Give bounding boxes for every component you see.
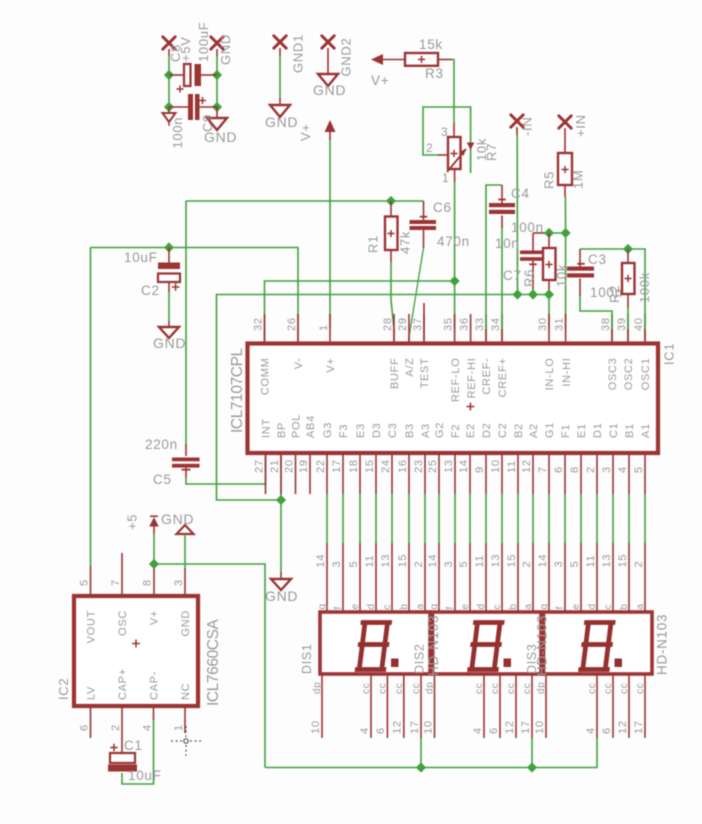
- svg-text:3: 3: [601, 466, 613, 473]
- svg-text:CREF-: CREF-: [481, 358, 493, 395]
- svg-text:220n: 220n: [145, 437, 178, 452]
- svg-text:100uF: 100uF: [196, 22, 211, 62]
- svg-text:e: e: [350, 603, 361, 609]
- DIS2 dp pin 10: [434, 674, 436, 738]
- pin GND2 X-pin: [322, 36, 334, 48]
- wire DIS1 cc to bus: [420, 738, 422, 768]
- svg-text:cc: cc: [411, 683, 422, 694]
- junction R2 top: [623, 244, 633, 254]
- resistor R6 10k: [548, 233, 550, 248]
- svg-text:R6: R6: [522, 269, 537, 287]
- IC IC1 ICL7107CPL box: [248, 344, 659, 454]
- wire R7 pin2 loop to wiper wire: [438, 154, 448, 156]
- pin GND supply X-pin: [211, 37, 223, 49]
- IC1 bottom pin 10 C2: [501, 455, 503, 494]
- wire IC1 pin 9 D2 to DIS2 segment: [485, 494, 487, 543]
- svg-text:IC1: IC1: [662, 343, 677, 365]
- svg-text:10: 10: [490, 459, 502, 473]
- svg-text:REF-HI: REF-HI: [466, 358, 478, 399]
- IC1 top pin 28 BUFF: [393, 314, 395, 344]
- display DIS2 decimal point: [504, 659, 512, 668]
- wire GND1: [279, 48, 281, 56]
- svg-text:VOUT: VOUT: [86, 610, 98, 643]
- IC1 bottom pin 5 A1: [644, 455, 646, 494]
- svg-text:24: 24: [380, 459, 392, 473]
- svg-text:OSC: OSC: [117, 610, 129, 636]
- IC1 top pin 35 REF-LO: [454, 314, 456, 344]
- svg-text:15: 15: [617, 554, 629, 568]
- wire IC1 pin 8 E1 to DIS3 segment: [580, 494, 582, 543]
- svg-text:a: a: [635, 603, 646, 609]
- svg-text:DIS1: DIS1: [300, 643, 314, 674]
- svg-text:d: d: [476, 603, 487, 609]
- wire IC1 pin 25 G2 to DIS2 segment: [438, 494, 440, 543]
- DIS3 dp pin 10: [545, 674, 547, 738]
- wire IC1 pin 22 G3 to DIS1 segment: [326, 494, 328, 543]
- svg-text:2: 2: [585, 466, 597, 473]
- wiper connection arrowhead: [467, 143, 475, 151]
- wire IC1 pin 17 F3 to DIS1 segment: [342, 494, 344, 543]
- wire IC1 pin 6 F1 to DIS3 segment: [564, 494, 566, 543]
- svg-text:g: g: [317, 603, 328, 609]
- junction INT node R1: [386, 196, 396, 206]
- display DIS1 HD-N103 box: [320, 612, 430, 674]
- IC1 top pin 30 IN-LO: [548, 314, 550, 344]
- svg-text:C1: C1: [124, 738, 143, 753]
- wire node A to IN-HI pin 31: [565, 233, 567, 329]
- svg-text:B2: B2: [513, 423, 525, 438]
- supply symbol +5 arrow: [149, 517, 159, 527]
- svg-text:DIS2: DIS2: [413, 643, 427, 674]
- svg-text:100n: 100n: [511, 220, 544, 235]
- supply symbol V+ arrow left: [371, 54, 383, 65]
- svg-text:15: 15: [397, 554, 409, 568]
- IC1 bottom pin 20 POL: [295, 455, 297, 494]
- pin -IN X-pin: [511, 115, 523, 127]
- svg-text:C4: C4: [511, 186, 530, 201]
- IC1 top pin 31 IN-HI: [565, 314, 567, 344]
- IC1 bottom pin 13 F2: [454, 455, 456, 494]
- svg-text:14: 14: [537, 554, 549, 568]
- wire IC1 pin 14 E2 to DIS2 segment: [469, 494, 471, 543]
- svg-text:dp: dp: [312, 681, 323, 694]
- display DIS3 HD-N103 box: [544, 612, 653, 674]
- svg-text:38: 38: [600, 317, 612, 331]
- svg-text:2: 2: [413, 561, 425, 568]
- IC1 bottom pin 15 D3: [375, 455, 377, 494]
- wire IC1 pin 3 C1 to DIS3 segment: [612, 494, 614, 543]
- svg-text:GND: GND: [218, 34, 233, 65]
- svg-text:5: 5: [78, 579, 90, 586]
- trimmer R7 10k body: [448, 137, 461, 169]
- svg-text:10uF: 10uF: [128, 768, 162, 783]
- pin +5V supply X-pin: [163, 37, 175, 49]
- IC1 bottom pin 24 C3: [391, 455, 393, 494]
- IC1 bottom pin 27 INT: [265, 455, 267, 494]
- svg-text:LV: LV: [86, 686, 98, 700]
- svg-text:B1: B1: [624, 423, 636, 438]
- svg-text:V-: V-: [293, 358, 305, 370]
- svg-text:INT: INT: [261, 418, 273, 438]
- capacitor C2 10uF: [168, 248, 170, 264]
- IC IC2 ICL7660CSA box: [74, 596, 198, 706]
- capacitor C4 100n: [486, 185, 502, 329]
- svg-text:OSC2: OSC2: [623, 358, 635, 391]
- svg-text:8: 8: [569, 466, 581, 473]
- svg-text:36: 36: [458, 317, 470, 331]
- IC1 top pin 36 REF-HI: [470, 314, 472, 344]
- junction BP R6 IN-LO: [544, 289, 554, 299]
- svg-text:11: 11: [364, 555, 376, 568]
- IC1 bottom pin 3 C1: [612, 455, 614, 494]
- wire IC1 pin 11 B2 to DIS2 segment: [517, 494, 519, 543]
- svg-text:GND2: GND2: [339, 38, 354, 77]
- wire C5 bottom to INT pin 27: [186, 470, 266, 484]
- IC1 bottom pin 2 D1: [596, 455, 598, 494]
- IC1 top pin 26 V-: [297, 314, 299, 344]
- svg-text:+IN: +IN: [573, 114, 588, 137]
- svg-text:GND: GND: [265, 114, 298, 130]
- svg-text:3: 3: [553, 561, 565, 568]
- wire IC1 pin 13 F2 to DIS2 segment: [454, 494, 456, 543]
- IC1 bottom pin 23 A3: [424, 455, 426, 494]
- svg-text:f: f: [333, 606, 344, 609]
- svg-text:e: e: [460, 603, 471, 609]
- svg-text:C3: C3: [387, 423, 399, 438]
- wire V+ bus to display commons: [154, 564, 265, 768]
- svg-text:6: 6: [601, 727, 613, 734]
- svg-text:23: 23: [413, 459, 425, 473]
- svg-text:39: 39: [616, 317, 628, 331]
- IC1 top pin 39 OSC2: [627, 314, 629, 344]
- capacitor C1 10uF: [110, 753, 135, 763]
- svg-text:cc: cc: [377, 683, 388, 694]
- svg-text:-IN: -IN: [520, 117, 535, 136]
- pin +IN X-pin: [559, 116, 571, 128]
- wire R3 to R7 pin 3: [438, 59, 452, 61]
- svg-text:cc: cc: [635, 683, 646, 694]
- IC2 pin 8 red stub: [153, 568, 155, 595]
- svg-text:17: 17: [409, 720, 421, 734]
- wire V- net y=247.5: [91, 248, 299, 330]
- svg-text:CAP+: CAP+: [117, 668, 129, 700]
- junction BP pin21 GND drop: [276, 495, 286, 505]
- svg-text:cc: cc: [394, 683, 405, 694]
- svg-text:12: 12: [504, 720, 516, 734]
- IC2 pin 4 wire to C1 bottom: [153, 707, 155, 720]
- svg-text:cc: cc: [603, 683, 614, 694]
- IC1 bottom pin 12 A2: [532, 455, 534, 494]
- junction bus DIS2: [527, 762, 537, 772]
- wire R7 pin1 to REF-LO: [454, 169, 456, 182]
- svg-text:b: b: [619, 603, 630, 609]
- svg-text:dp: dp: [536, 681, 547, 694]
- svg-text:34: 34: [490, 317, 502, 331]
- svg-text:G1: G1: [544, 422, 556, 438]
- svg-text:6: 6: [375, 727, 387, 734]
- wire V- to IC2 VOUT: [90, 248, 92, 567]
- wire IC1 pin 10 C2 to DIS2 segment: [501, 494, 503, 543]
- svg-text:REF-LO: REF-LO: [450, 358, 462, 403]
- mouse cursor crosshair: [171, 726, 201, 756]
- svg-text:14: 14: [458, 459, 470, 473]
- DIS3 cc pin 6: [612, 674, 614, 738]
- svg-text:15k: 15k: [419, 37, 443, 52]
- DIS2 cc pin 12: [515, 674, 517, 738]
- svg-text:4: 4: [141, 724, 153, 731]
- IC1 bottom pin 9 D2: [485, 455, 487, 494]
- IC1 bottom pin 21 BP: [280, 455, 282, 494]
- pin TEST stub: [423, 303, 425, 344]
- IC1 bottom pin 11 B2: [517, 455, 519, 494]
- svg-text:100n: 100n: [170, 117, 185, 149]
- junction REF-LO COMM: [450, 276, 460, 286]
- IC1 bottom pin 22 G3: [326, 455, 328, 494]
- IC1 bottom pin 19 AB4: [309, 455, 311, 494]
- svg-text:47k: 47k: [398, 231, 413, 254]
- svg-text:2: 2: [633, 561, 645, 568]
- svg-text:17: 17: [633, 720, 645, 734]
- svg-text:V+: V+: [298, 123, 313, 141]
- DIS3 cc pin 4: [596, 674, 598, 738]
- IC1 top pin 29 A/Z: [408, 314, 410, 344]
- svg-text:ICL7107CPL: ICL7107CPL: [229, 347, 246, 433]
- svg-text:13: 13: [601, 554, 613, 568]
- svg-text:d: d: [366, 603, 377, 609]
- IC2 pin 2 wire to C1: [121, 707, 123, 753]
- svg-text:D1: D1: [592, 423, 604, 438]
- svg-text:27: 27: [253, 459, 265, 473]
- svg-text:CREF+: CREF+: [497, 358, 509, 398]
- junction GND C8: [212, 70, 222, 80]
- svg-text:14: 14: [315, 554, 327, 568]
- svg-text:cc: cc: [474, 683, 485, 694]
- svg-text:32: 32: [252, 317, 264, 331]
- svg-text:C3: C3: [588, 252, 607, 267]
- svg-text:13: 13: [443, 459, 455, 473]
- wire pin 21 stub: [280, 455, 282, 468]
- svg-text:21: 21: [269, 459, 281, 473]
- capacitor C8 100uF: [169, 74, 184, 76]
- svg-text:OSC3: OSC3: [607, 358, 619, 391]
- junction node A R5: [561, 228, 571, 238]
- DIS2 cc pin 4: [483, 674, 485, 738]
- svg-text:28: 28: [382, 317, 394, 331]
- junction +5 V+ bus: [149, 559, 159, 569]
- wire IC1 pin 7 G1 to DIS3 segment: [548, 494, 550, 543]
- junction BP -IN: [512, 289, 522, 299]
- svg-text:1: 1: [173, 724, 185, 731]
- svg-text:OSC1: OSC1: [640, 358, 652, 391]
- svg-text:1M: 1M: [571, 170, 586, 189]
- wire V+ to R3: [382, 59, 405, 61]
- junction bus DIS1: [416, 762, 426, 772]
- wire GND2: [327, 48, 329, 74]
- capacitor C3 100n: [579, 249, 581, 267]
- svg-text:COMM: COMM: [260, 358, 272, 396]
- svg-text:C7: C7: [503, 268, 522, 283]
- svg-text:IC2: IC2: [56, 678, 71, 700]
- wire display common cathode bus: [265, 738, 597, 768]
- wire OSC1 node y=249: [580, 249, 645, 329]
- svg-text:cc: cc: [587, 683, 598, 694]
- svg-text:33: 33: [474, 317, 486, 331]
- svg-text:cc: cc: [619, 683, 630, 694]
- IC1 bottom pin 25 G2: [438, 455, 440, 494]
- svg-text:5: 5: [348, 561, 360, 568]
- svg-text:HD-N103: HD-N103: [535, 615, 550, 676]
- IC1 bottom pin 6 F1: [564, 455, 566, 494]
- svg-text:A/Z: A/Z: [404, 358, 416, 377]
- svg-text:V+: V+: [325, 358, 337, 373]
- svg-text:F2: F2: [450, 424, 462, 438]
- IC2 origin cross: [132, 640, 140, 648]
- svg-text:IN-LO: IN-LO: [544, 358, 556, 391]
- wire INT node horizontal y=201: [186, 200, 424, 202]
- IC1 bottom pin 4 B1: [628, 455, 630, 494]
- svg-text:BP: BP: [276, 422, 288, 438]
- svg-text:D3: D3: [371, 423, 383, 438]
- svg-text:19: 19: [298, 459, 310, 473]
- svg-text:F3: F3: [338, 424, 350, 438]
- svg-text:GND: GND: [161, 511, 194, 527]
- svg-text:9: 9: [474, 466, 486, 473]
- svg-text:c: c: [492, 604, 503, 610]
- svg-text:6: 6: [553, 466, 565, 473]
- svg-text:35: 35: [442, 317, 454, 331]
- svg-text:10uF: 10uF: [124, 250, 158, 265]
- IC1 bottom pin 8 E1: [580, 455, 582, 494]
- svg-text:POL: POL: [291, 414, 303, 438]
- svg-text:10: 10: [534, 720, 546, 734]
- svg-text:22: 22: [315, 459, 327, 473]
- IC2 pin 6 stub: [90, 707, 92, 738]
- trimmer R7 wiper arrow: [447, 149, 466, 172]
- DIS1 dp pin 10: [321, 674, 323, 738]
- svg-text:17: 17: [520, 720, 532, 734]
- resistor R5 1M: [558, 153, 572, 185]
- IC1 top pin 40 OSC1: [644, 314, 646, 344]
- wire IC1 pin 16 B3 to DIS1 segment: [408, 494, 410, 543]
- display DIS1 decimal point: [391, 659, 399, 668]
- svg-text:+5: +5: [125, 514, 140, 530]
- svg-text:3: 3: [331, 561, 343, 568]
- junction +5V C8: [164, 70, 174, 80]
- svg-text:R3: R3: [425, 66, 444, 81]
- IC1 bottom pin 18 E3: [359, 455, 361, 494]
- wire IC1 pin 12 A2 to DIS2 segment: [532, 494, 534, 543]
- wire +5 to IC2 V+ pin 8: [153, 534, 155, 564]
- svg-text:6: 6: [78, 724, 90, 731]
- junction +5V C9: [164, 102, 174, 112]
- junction V- C2: [164, 242, 174, 252]
- svg-text:14: 14: [427, 554, 439, 568]
- svg-text:BUFF: BUFF: [389, 358, 401, 390]
- IC1 top pin 38 OSC3: [611, 314, 613, 344]
- wire IC1 pin 5 A1 to DIS3 segment: [644, 494, 646, 543]
- svg-text:18: 18: [348, 459, 360, 473]
- svg-text:C1: C1: [608, 423, 620, 438]
- svg-text:IN-HI: IN-HI: [561, 358, 573, 387]
- wire IC1 pin 4 B1 to DIS3 segment: [628, 494, 630, 543]
- svg-text:7: 7: [537, 466, 549, 473]
- svg-text:5: 5: [633, 466, 645, 473]
- svg-text:31: 31: [553, 317, 565, 331]
- svg-text:f: f: [555, 606, 566, 609]
- svg-text:e: e: [571, 603, 582, 609]
- svg-text:3: 3: [443, 561, 455, 568]
- IC1 top pin 32 COMM: [264, 314, 266, 344]
- DIS1 cc pin 17: [420, 674, 422, 738]
- supply symbol V+ arrow: [325, 120, 336, 132]
- IC1 bottom pin 7 G1: [548, 455, 550, 494]
- svg-text:10: 10: [422, 720, 434, 734]
- svg-text:g: g: [539, 603, 550, 609]
- svg-text:29: 29: [397, 317, 409, 331]
- svg-text:TEST: TEST: [419, 358, 431, 389]
- wire IC1 pin 15 D3 to DIS1 segment: [375, 494, 377, 543]
- svg-text:GND: GND: [153, 335, 186, 351]
- svg-text:A3: A3: [420, 423, 432, 438]
- resistor R2 100k: [627, 249, 629, 263]
- svg-text:C5: C5: [153, 472, 172, 487]
- svg-text:17: 17: [331, 459, 343, 473]
- svg-text:20: 20: [283, 459, 295, 473]
- svg-text:R2: R2: [607, 285, 622, 303]
- svg-text:4: 4: [359, 727, 371, 734]
- svg-text:2: 2: [110, 724, 122, 731]
- svg-text:100k: 100k: [637, 272, 652, 303]
- DIS3 cc pin 17: [644, 674, 646, 738]
- wire IC1 pin 23 A3 to DIS1 segment: [424, 494, 426, 543]
- wire C5 top riser: [185, 201, 187, 444]
- wire IC1 pin 18 E3 to DIS1 segment: [359, 494, 361, 543]
- svg-text:10k: 10k: [554, 264, 569, 287]
- svg-text:E2: E2: [465, 423, 477, 438]
- svg-text:C2: C2: [141, 283, 160, 298]
- svg-text:GND1: GND1: [291, 34, 306, 73]
- svg-text:12: 12: [392, 720, 404, 734]
- svg-text:1: 1: [318, 324, 330, 331]
- svg-text:470n: 470n: [437, 234, 470, 249]
- svg-text:26: 26: [286, 317, 298, 331]
- svg-text:V+: V+: [149, 610, 161, 625]
- svg-text:3: 3: [173, 579, 185, 586]
- svg-text:E1: E1: [576, 423, 588, 438]
- svg-text:40: 40: [633, 317, 645, 331]
- svg-text:10: 10: [310, 720, 322, 734]
- svg-text:37: 37: [412, 317, 424, 331]
- DIS2 cc pin 6: [499, 674, 501, 738]
- DIS1 cc pin 4: [370, 674, 372, 738]
- svg-text:5: 5: [458, 561, 470, 568]
- resistor R3 15k: [405, 53, 438, 66]
- IC1 bottom pin 14 E2: [469, 455, 471, 494]
- svg-text:+5V: +5V: [178, 36, 193, 62]
- svg-text:b: b: [399, 603, 410, 609]
- svg-text:12: 12: [521, 459, 533, 473]
- wire GND drop from BP junction: [280, 500, 282, 572]
- svg-text:ICL7660CSA: ICL7660CSA: [205, 618, 222, 706]
- wire COMM pin 32 to REF-LO junction: [265, 281, 455, 329]
- svg-text:G3: G3: [322, 422, 334, 438]
- svg-text:HD-N103: HD-N103: [426, 615, 441, 676]
- pin GND1 X-pin: [274, 36, 286, 48]
- svg-text:cc: cc: [490, 683, 501, 694]
- wire C6 to A/Z pin 29 diagonal: [409, 248, 423, 335]
- display DIS3 digit 8: [581, 623, 613, 670]
- IC1 top pin 34 CREF+: [501, 314, 503, 344]
